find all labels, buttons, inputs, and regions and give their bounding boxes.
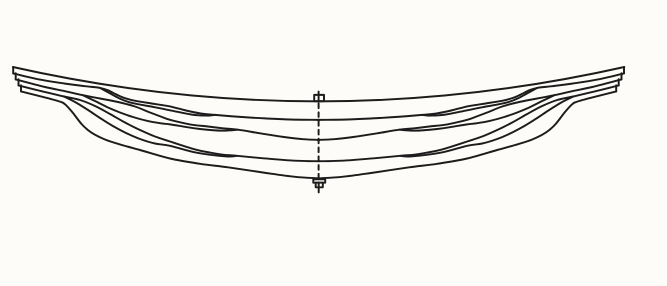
leaf 1/2 air-gap lower edge [100, 88, 215, 116]
center bolt stem (bottom, through nut) [318, 183, 320, 193]
leaf 3/4 interface line, left half [19, 85, 320, 161]
leaf 1 end cap (tip) [12, 67, 14, 73]
leaf 4 end cap (tip) [20, 85, 22, 91]
leaf 3 end cap (tip) [18, 79, 20, 85]
center bolt stem (top, through head) [318, 92, 320, 101]
center bolt head [314, 95, 324, 101]
leaf 2 end cap (tip) [15, 73, 17, 79]
right half of spring (mirror image of left half) [318, 67, 625, 178]
leaf 2/3 interface line, left half [16, 79, 320, 139]
leaf 3/4 air-gap lower edge [64, 97, 237, 157]
nut [316, 183, 323, 188]
center line (dashed) [318, 104, 320, 178]
leaf 4 bottom edge, left half [21, 91, 320, 178]
leaf 1/2 interface line, left half [13, 73, 319, 120]
leaf 2/3 air-gap lower edge [83, 95, 238, 130]
washer under bottom leaf [313, 179, 325, 182]
leaf 1 (main leaf) top edge, left half [13, 67, 320, 101]
